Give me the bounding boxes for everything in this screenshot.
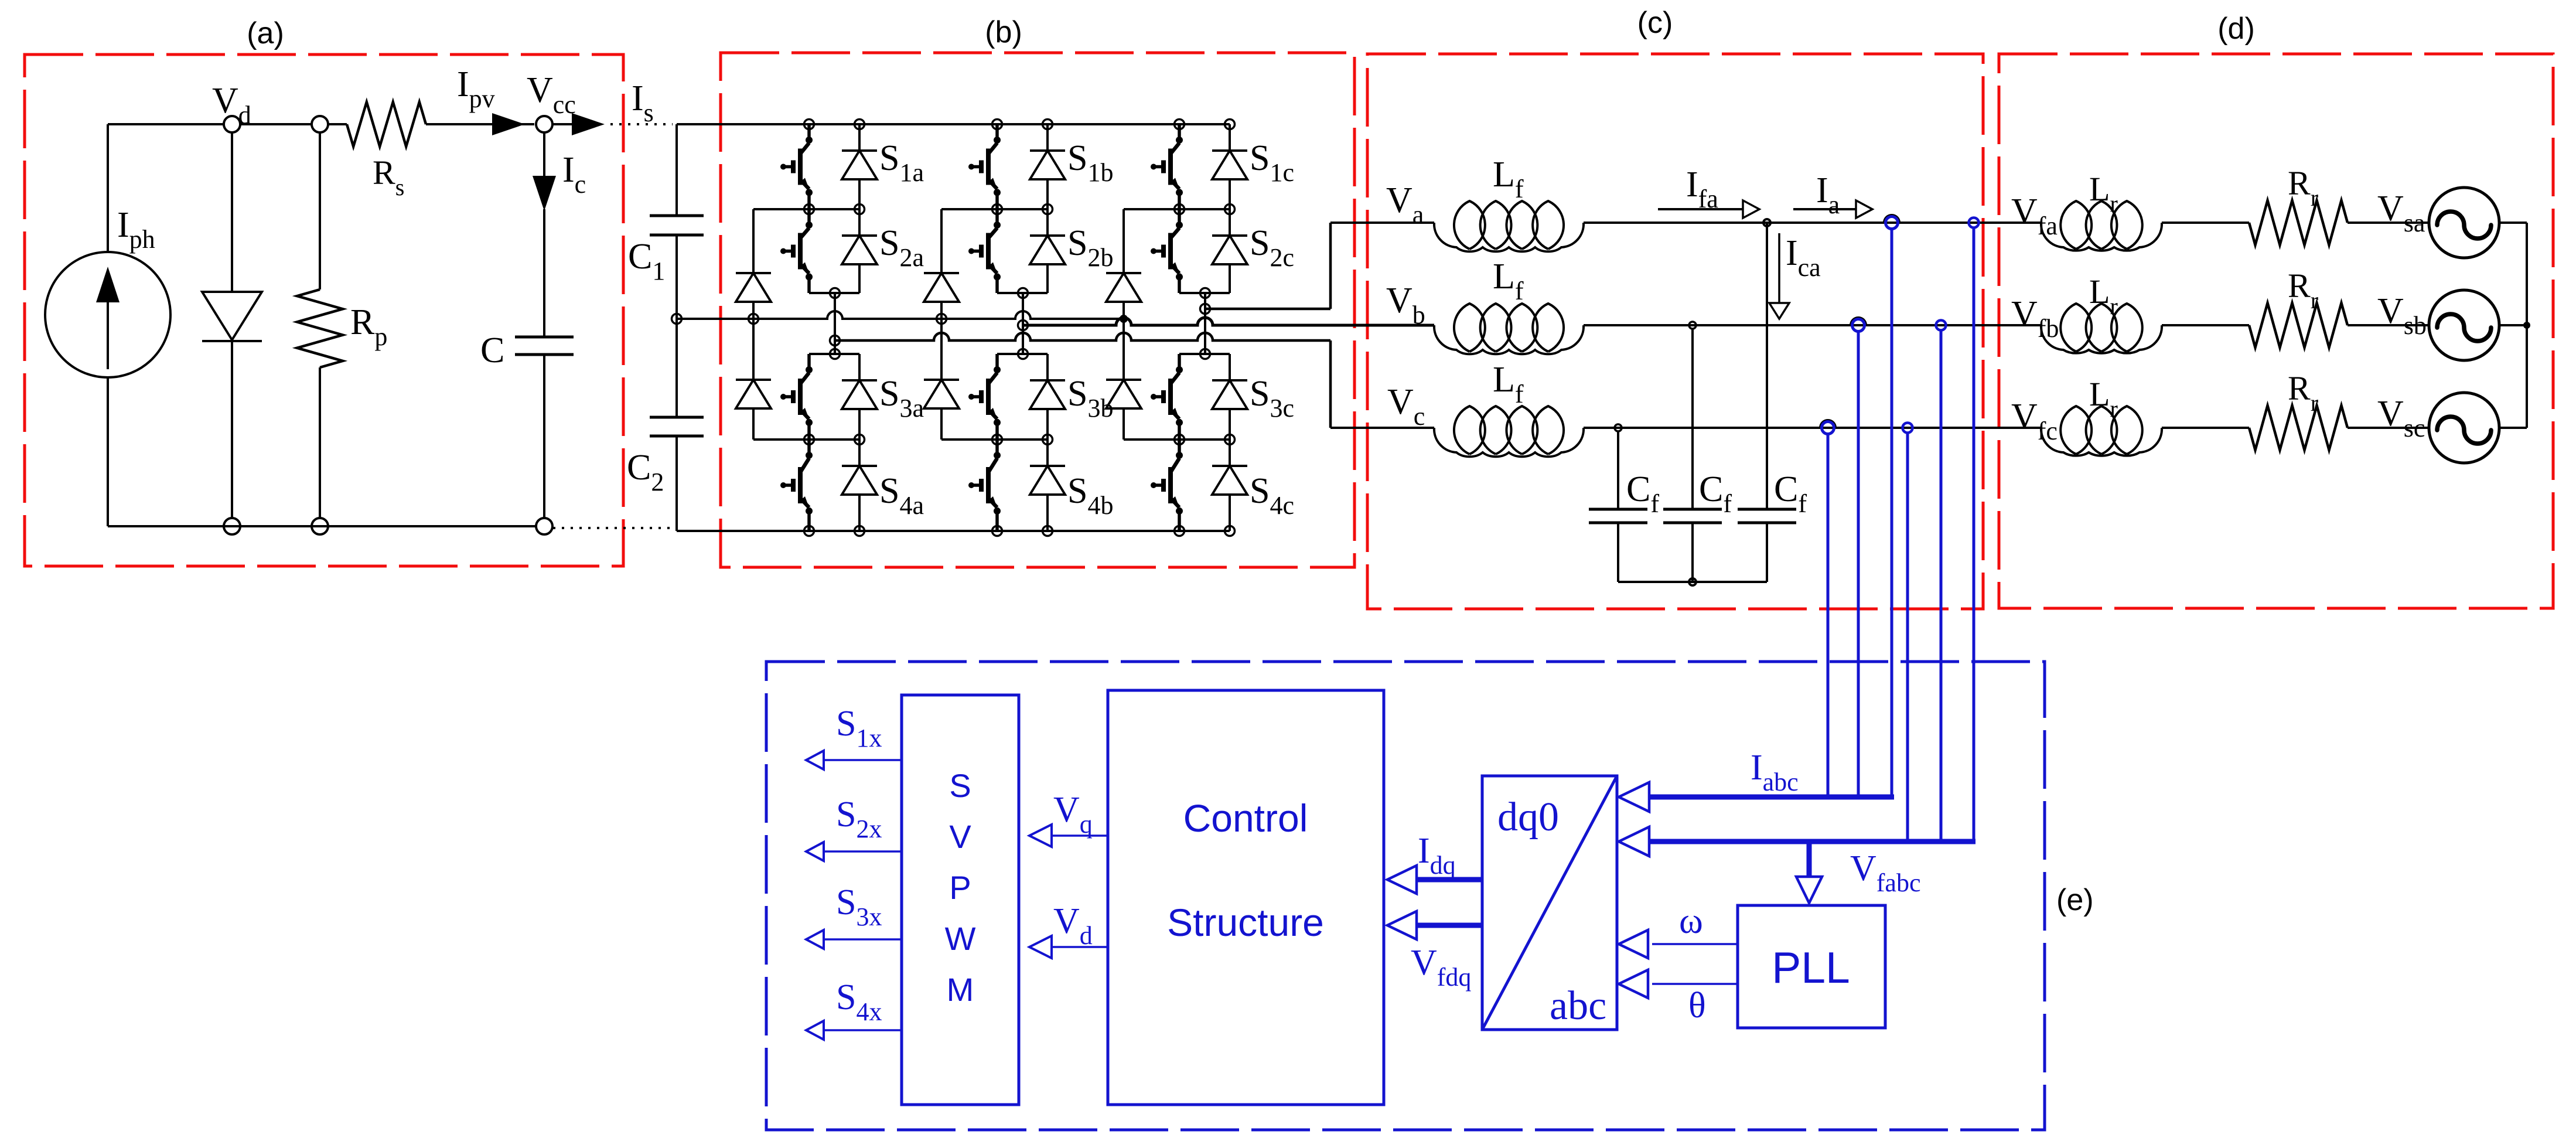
svg-text:PLL: PLL bbox=[1772, 943, 1850, 992]
wire S3a top bracket bbox=[809, 353, 859, 355]
wire bottom rail section (a) bbox=[108, 525, 536, 527]
node output tap leg a bbox=[830, 336, 840, 346]
blue node Ib sense bbox=[1852, 319, 1865, 332]
transistor S2a IGBT bbox=[780, 209, 813, 293]
label Vfabc bbox=[1850, 849, 1921, 897]
label Lf phase B bbox=[1493, 257, 1524, 305]
block Control Structure bbox=[1108, 690, 1384, 1105]
label Rr phase c bbox=[2288, 369, 2318, 416]
wire S2c bottom bracket bbox=[1179, 292, 1230, 294]
label S2a bbox=[879, 223, 924, 272]
label Rr phase a bbox=[2288, 164, 2318, 211]
node j12 diode c bbox=[1225, 205, 1235, 214]
label S3b bbox=[1067, 374, 1113, 423]
node S1a top diode bbox=[855, 120, 865, 130]
node j34 igbt b bbox=[992, 435, 1002, 445]
inductor Lf phase B bbox=[1434, 304, 1584, 354]
diode S1b bbox=[1030, 124, 1065, 209]
block PLL bbox=[1738, 905, 1885, 1028]
diode S1a bbox=[842, 124, 877, 209]
wire Lr to Rr b bbox=[2162, 324, 2249, 326]
svg-text:W: W bbox=[945, 920, 976, 957]
wire top rail section (a) bbox=[108, 123, 347, 125]
label Cf 2 bbox=[1699, 469, 1732, 518]
label SVPWM bbox=[945, 767, 976, 1008]
diode S3a bbox=[842, 354, 877, 440]
svg-text:(b): (b) bbox=[985, 15, 1022, 49]
label Vfb bbox=[2011, 294, 2059, 343]
label Vd bbox=[212, 81, 251, 130]
svg-text:M: M bbox=[947, 971, 974, 1008]
label Ifa bbox=[1686, 165, 1718, 213]
resistor Rr phase b bbox=[2249, 303, 2348, 348]
clamp diode lower c bbox=[1106, 319, 1141, 440]
label Lf phase C bbox=[1493, 360, 1524, 408]
diode S3c bbox=[1212, 354, 1247, 440]
svg-text:dq0: dq0 bbox=[1497, 795, 1559, 840]
node output top a bbox=[830, 288, 840, 298]
node Vd bbox=[224, 116, 240, 132]
label S4c bbox=[1250, 471, 1294, 520]
svg-text:(a): (a) bbox=[247, 16, 284, 50]
diode S3b bbox=[1030, 354, 1065, 440]
node S4b bottom igbt bbox=[992, 526, 1002, 536]
wire output column c bbox=[1204, 293, 1206, 354]
clamp diode lower b bbox=[924, 319, 959, 440]
blue wire Vfb sense bbox=[1940, 330, 1943, 842]
clamp diode upper a bbox=[736, 209, 771, 319]
junction Cf common bbox=[1689, 578, 1696, 585]
diode S4a bbox=[842, 440, 877, 531]
current arrow Ifa bbox=[1658, 200, 1759, 218]
capacitor C1 bbox=[650, 216, 704, 235]
node j34 diode c bbox=[1225, 435, 1235, 445]
wire S3b top bracket bbox=[997, 353, 1048, 355]
node output tap leg c bbox=[1200, 304, 1210, 314]
inductor Lf phase A bbox=[1434, 201, 1584, 251]
blue node Vfc sense bbox=[1903, 423, 1913, 433]
junction grid bus bbox=[2523, 322, 2530, 329]
label S4a bbox=[879, 471, 924, 520]
wire junction S1c-S2c bbox=[1124, 208, 1230, 210]
wire junction S3b-S4b bbox=[941, 438, 1048, 441]
inductor Lr phase c bbox=[2041, 406, 2162, 456]
inductor Lf phase C bbox=[1434, 406, 1584, 457]
label Vc bbox=[1387, 382, 1425, 431]
svg-text:P: P bbox=[949, 869, 971, 906]
clamp diode lower a bbox=[736, 319, 771, 440]
label Ic bbox=[562, 150, 586, 199]
label Iabc bbox=[1751, 748, 1799, 796]
wire phase B after Lf bbox=[1584, 324, 2041, 326]
label Vfc bbox=[2011, 397, 2058, 445]
label Lf phase A bbox=[1493, 155, 1524, 203]
gate signal arrow S4x bbox=[806, 1021, 902, 1040]
wire Lr to Rr a bbox=[2162, 222, 2249, 224]
node Vcc bbox=[536, 116, 552, 132]
label S2c bbox=[1250, 223, 1294, 272]
arrow Idq bbox=[1387, 866, 1482, 894]
wire S2a bottom bracket bbox=[809, 292, 859, 294]
blue wire Ia sense bbox=[1891, 229, 1893, 797]
node j34 igbt c bbox=[1175, 435, 1185, 445]
label Vsa bbox=[2377, 189, 2425, 237]
node neutral clamp a bbox=[749, 314, 759, 324]
label C2 bbox=[627, 448, 664, 496]
dotted link top bbox=[610, 123, 673, 125]
label Vb bbox=[1386, 281, 1425, 329]
label Ica bbox=[1786, 233, 1821, 282]
arrow theta bbox=[1619, 970, 1738, 998]
transistor S2b IGBT bbox=[968, 209, 1001, 293]
label omega bbox=[1679, 901, 1703, 941]
label Vq bbox=[1053, 790, 1093, 839]
wire S3c top bracket bbox=[1179, 353, 1230, 355]
wire Va riser bbox=[1329, 223, 1332, 309]
wire rail Vb bbox=[1023, 318, 1434, 325]
node j34 diode b bbox=[1043, 435, 1053, 445]
label Rr phase b bbox=[2288, 267, 2318, 314]
svg-text:(e): (e) bbox=[2056, 883, 2094, 917]
label Vfdq bbox=[1411, 943, 1471, 992]
diode S1c bbox=[1212, 124, 1247, 209]
node j12 igbt b bbox=[992, 205, 1002, 214]
svg-text:S: S bbox=[949, 767, 971, 804]
node S1c top igbt bbox=[1175, 120, 1185, 130]
section label (c) bbox=[1637, 6, 1673, 40]
node j12 diode b bbox=[1043, 205, 1053, 214]
wire Lr to Rr c bbox=[2162, 427, 2249, 429]
wire phase C after Lf bbox=[1584, 427, 2041, 429]
blue node Ia sense bbox=[1886, 217, 1898, 229]
capacitor C2 bbox=[650, 417, 704, 436]
node S4a bottom diode bbox=[855, 526, 865, 536]
node S3c bracket bbox=[1200, 349, 1210, 359]
transistor S1b IGBT bbox=[968, 124, 1001, 209]
current arrow Ic bbox=[533, 132, 556, 211]
arrow Vq bbox=[1029, 825, 1108, 847]
label Cf 1 bbox=[1626, 469, 1659, 518]
wire phase A into filter bbox=[1330, 222, 1434, 224]
hop over node Ib sense bbox=[1851, 318, 1866, 325]
wire DC-link vertical bbox=[675, 124, 678, 531]
wire Cf column phase C bbox=[1617, 431, 1619, 509]
clamp diode upper c bbox=[1106, 209, 1141, 319]
node j12 igbt c bbox=[1175, 205, 1185, 214]
wire Rr to source b bbox=[2348, 324, 2430, 326]
capacitor Cf phase b bbox=[1663, 509, 1722, 582]
label Iph bbox=[117, 205, 155, 254]
diode S2c bbox=[1212, 209, 1247, 293]
junction neutral clamp c bbox=[1120, 315, 1128, 323]
transistor S3a IGBT bbox=[780, 354, 813, 440]
current source Iph bbox=[45, 252, 170, 377]
node S4c bottom igbt bbox=[1175, 526, 1185, 536]
AC source Vsa bbox=[2429, 188, 2499, 258]
blue node Vfb sense bbox=[1936, 321, 1946, 331]
inductor Lr phase b bbox=[2041, 304, 2162, 353]
blue wire Ic sense bbox=[1827, 434, 1830, 797]
svg-text:V: V bbox=[949, 818, 971, 855]
label Vsb bbox=[2377, 291, 2427, 340]
label S1x bbox=[836, 704, 882, 752]
wire neutral rail bbox=[677, 311, 1124, 319]
wire junction S1a-S2a bbox=[753, 208, 859, 210]
section label (a) bbox=[247, 16, 284, 50]
wire top DC bus bbox=[677, 123, 1230, 125]
node j12 diode a bbox=[855, 205, 865, 214]
resistor Rp bbox=[297, 132, 343, 518]
node j34 igbt a bbox=[804, 435, 814, 445]
capacitor Cf phase c bbox=[1589, 509, 1647, 582]
label Lr phase b bbox=[2089, 272, 2118, 319]
diode S4c bbox=[1212, 440, 1247, 531]
label Cf 3 bbox=[1774, 469, 1807, 518]
wire Vc riser bbox=[1329, 340, 1332, 428]
svg-text:abc: abc bbox=[1550, 983, 1606, 1028]
dashed box (a) PV cell model bbox=[25, 54, 623, 566]
section label (d) bbox=[2217, 12, 2255, 46]
resistor Rr phase c bbox=[2249, 406, 2348, 450]
wire output column a bbox=[834, 293, 836, 354]
hop over node Ic sense bbox=[1820, 420, 1835, 428]
node S1b top diode bbox=[1043, 120, 1053, 130]
wire Cf common bbox=[1618, 581, 1767, 583]
hop over node Ia sense bbox=[1884, 215, 1899, 223]
wire Rr to source c bbox=[2348, 427, 2430, 429]
wire source to bus b bbox=[2499, 324, 2527, 326]
label C bbox=[480, 331, 504, 370]
blue wire Vfc sense bbox=[1906, 432, 1909, 842]
gate signal arrow S1x bbox=[806, 751, 902, 769]
AC source Vsb bbox=[2429, 290, 2499, 360]
node j12 igbt a bbox=[804, 205, 814, 214]
transistor S1a IGBT bbox=[780, 124, 813, 209]
current arrow Ipv bbox=[492, 113, 525, 135]
wire junction S3c-S4c bbox=[1124, 438, 1230, 441]
block dq0-abc transform bbox=[1482, 776, 1617, 1030]
label S1b bbox=[1067, 138, 1113, 187]
node neutral clamp b bbox=[937, 314, 947, 324]
arrow Vd bbox=[1029, 936, 1108, 958]
label S3c bbox=[1250, 374, 1294, 423]
node output top c bbox=[1200, 288, 1210, 298]
feed Iabc bbox=[1619, 782, 1894, 812]
node top of Rp bbox=[312, 116, 328, 132]
transistor S4c IGBT bbox=[1151, 440, 1183, 531]
label S1a bbox=[879, 138, 924, 187]
transistor S3b IGBT bbox=[968, 354, 1001, 440]
label Ipv bbox=[457, 64, 495, 113]
arrow into PLL bbox=[1796, 842, 1822, 903]
wire rail leg-c to Va bbox=[1205, 308, 1330, 311]
node j34 diode a bbox=[855, 435, 865, 445]
arrow Vfdq bbox=[1387, 911, 1482, 939]
label S3a bbox=[879, 374, 924, 423]
label Control bbox=[1183, 796, 1308, 840]
label S4x bbox=[836, 977, 882, 1026]
current arrow Ia bbox=[1793, 200, 1872, 218]
blue wire Vfa sense bbox=[1973, 227, 1975, 842]
wire left rail bbox=[107, 124, 109, 526]
label Vfa bbox=[2011, 192, 2058, 240]
wire grid neutral bus bbox=[2526, 223, 2528, 428]
wire output column b bbox=[1022, 293, 1024, 354]
diode S2a bbox=[842, 209, 877, 293]
section label (b) bbox=[985, 15, 1022, 49]
label Structure bbox=[1167, 901, 1324, 944]
capacitor Cf phase a bbox=[1738, 509, 1796, 582]
wire Rs to Vcc bbox=[426, 123, 534, 125]
resistor Rs bbox=[347, 102, 426, 147]
label Lr phase c bbox=[2089, 375, 2118, 422]
diode S2b bbox=[1030, 209, 1065, 293]
node phase B to Cf bbox=[1689, 322, 1696, 329]
dotted link bottom bbox=[553, 527, 673, 529]
arrow omega bbox=[1619, 930, 1738, 958]
label Vd out bbox=[1053, 901, 1093, 950]
label Va bbox=[1386, 180, 1424, 229]
wire junction S1b-S2b bbox=[941, 208, 1048, 210]
gate signal arrow S2x bbox=[806, 842, 902, 861]
wire source to bus a bbox=[2499, 222, 2527, 224]
wire Rr to source a bbox=[2348, 222, 2430, 224]
label Rp bbox=[350, 302, 387, 351]
wire rail leg-a to Vc bbox=[835, 333, 1330, 340]
dashed box (d) grid bbox=[1999, 54, 2553, 608]
gate signal arrow S3x bbox=[806, 930, 902, 949]
node S3b bracket bbox=[1018, 349, 1028, 359]
svg-text:C: C bbox=[480, 331, 504, 370]
dashed box (b) three-level NPC inverter bbox=[721, 53, 1354, 567]
label S2x bbox=[836, 795, 882, 843]
node bottom left bbox=[224, 518, 240, 534]
label C1 bbox=[628, 237, 665, 285]
node bottom mid bbox=[312, 518, 328, 534]
wire Cf column phase B bbox=[1691, 329, 1694, 509]
AC source Vsc bbox=[2429, 393, 2499, 463]
label Idq bbox=[1418, 831, 1456, 880]
svg-text:Structure: Structure bbox=[1167, 901, 1324, 944]
svg-text:ω: ω bbox=[1679, 901, 1703, 941]
transistor S2c IGBT bbox=[1151, 209, 1183, 293]
wire bottom DC bus bbox=[677, 530, 1230, 532]
svg-text:Control: Control bbox=[1183, 796, 1308, 840]
resistor Rr phase a bbox=[2249, 200, 2348, 245]
label S2b bbox=[1067, 223, 1113, 272]
transistor S4a IGBT bbox=[780, 440, 813, 531]
dashed box (e) control system bbox=[766, 662, 2045, 1130]
transistor S3c IGBT bbox=[1151, 354, 1183, 440]
node output tap leg b bbox=[1018, 321, 1028, 331]
label PLL bbox=[1772, 943, 1850, 992]
label Vcc bbox=[527, 70, 576, 119]
node neutral at DC link bbox=[672, 314, 682, 324]
clamp diode upper b bbox=[924, 209, 959, 319]
node S3a bracket bbox=[830, 349, 840, 359]
label Lr phase a bbox=[2089, 170, 2118, 217]
node S1a top igbt bbox=[804, 120, 814, 130]
blue node Vfa sense bbox=[1969, 218, 1979, 228]
capacitor C bbox=[515, 209, 574, 518]
wire Cf column phase A bbox=[1766, 223, 1768, 509]
section label (e) bbox=[2056, 883, 2094, 917]
blue node Ic sense bbox=[1822, 422, 1834, 434]
label Is bbox=[632, 79, 654, 127]
current arrow Ica bbox=[1769, 233, 1789, 319]
svg-text:(c): (c) bbox=[1637, 6, 1673, 40]
label Ia bbox=[1816, 171, 1840, 219]
feed Vfabc bbox=[1619, 827, 1975, 856]
label abc bbox=[1550, 983, 1606, 1028]
label S1c bbox=[1250, 138, 1294, 187]
wire phase A after Lf bbox=[1584, 222, 2041, 224]
node S4c bottom diode bbox=[1225, 526, 1235, 536]
transistor S1c IGBT bbox=[1151, 124, 1183, 209]
label S4b bbox=[1067, 471, 1113, 520]
arrow Is out bbox=[552, 113, 605, 135]
node phase C to Cf bbox=[1615, 424, 1622, 431]
diode S4b bbox=[1030, 440, 1065, 531]
label Vsc bbox=[2377, 394, 2425, 442]
diode D bbox=[202, 132, 262, 518]
inductor Lr phase a bbox=[2041, 201, 2162, 251]
label S3x bbox=[836, 883, 882, 931]
wire phase C into filter bbox=[1330, 427, 1434, 429]
block SVPWM bbox=[902, 695, 1019, 1105]
junction phase A to Cf bbox=[1763, 219, 1770, 226]
svg-text:θ: θ bbox=[1688, 986, 1706, 1026]
node S4b bottom diode bbox=[1043, 526, 1053, 536]
label Rs bbox=[373, 154, 404, 200]
transistor S4b IGBT bbox=[968, 440, 1001, 531]
node S4a bottom igbt bbox=[804, 526, 814, 536]
node S1c top diode bbox=[1225, 120, 1235, 130]
wire source to bus c bbox=[2499, 427, 2527, 429]
node S1b top igbt bbox=[992, 120, 1002, 130]
label dq0 bbox=[1497, 795, 1559, 840]
wire junction S3a-S4a bbox=[753, 438, 859, 441]
node output top b bbox=[1018, 288, 1028, 298]
wire S2b bottom bracket bbox=[997, 292, 1048, 294]
blue wire Ib sense bbox=[1857, 331, 1860, 797]
svg-text:(d): (d) bbox=[2217, 12, 2255, 46]
node bottom right bbox=[536, 518, 552, 534]
label theta bbox=[1688, 986, 1706, 1026]
dashed box (c) LC filter bbox=[1367, 54, 1983, 609]
